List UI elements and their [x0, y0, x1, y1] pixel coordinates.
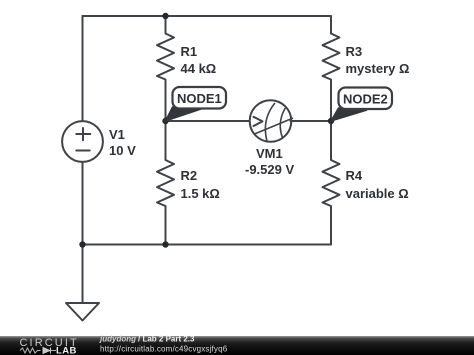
svg-text:variable Ω: variable Ω — [346, 186, 409, 201]
node junction dot node A (NODE1) — [162, 118, 168, 124]
resistor R4 — [323, 121, 340, 245]
ground — [66, 303, 99, 321]
node NODE2 callout — [331, 88, 392, 122]
footer bar — [0, 336, 474, 355]
wire voltmeter to node2 — [291, 120, 332, 122]
svg-text:mystery Ω: mystery Ω — [346, 61, 410, 76]
node junction dot node B (NODE2) — [328, 118, 334, 124]
svg-text:-9.529 V: -9.529 V — [245, 162, 294, 177]
node NODE1 callout — [166, 87, 227, 121]
svg-text:http://circuitlab.com/c49cvgxs: http://circuitlab.com/c49cvgxsjfyq6 — [100, 345, 228, 354]
wire bottom rail — [83, 244, 332, 246]
svg-text:NODE1: NODE1 — [177, 91, 222, 106]
node junction dot R1 top — [162, 13, 168, 19]
svg-text:NODE2: NODE2 — [343, 92, 388, 107]
svg-text:VM1: VM1 — [256, 146, 283, 161]
wire left upper segment — [82, 16, 84, 121]
voltage source V1 — [62, 121, 103, 162]
svg-text:judydong: judydong — [99, 335, 136, 344]
svg-text:R4: R4 — [346, 168, 363, 183]
resistor R1 — [157, 16, 174, 121]
svg-text:LAB: LAB — [56, 346, 77, 355]
footer credits — [99, 335, 228, 354]
svg-text:R3: R3 — [346, 44, 363, 59]
wire ground stem — [82, 245, 84, 304]
logo CircuitLab — [20, 337, 79, 355]
wire left lower segment — [82, 163, 84, 245]
svg-text:44 kΩ: 44 kΩ — [181, 61, 217, 76]
svg-text:V1: V1 — [109, 127, 125, 142]
svg-text:R1: R1 — [181, 44, 198, 59]
wire top rail — [83, 15, 331, 17]
resistor R3 — [323, 16, 340, 121]
svg-text:10 V: 10 V — [109, 143, 136, 158]
voltmeter VM1 — [250, 100, 293, 142]
node junction dot bottom left — [79, 241, 85, 247]
svg-text:1.5 kΩ: 1.5 kΩ — [181, 186, 220, 201]
wire node1 to voltmeter — [166, 120, 250, 122]
node junction dot R2 bottom — [162, 241, 168, 247]
resistor R2 — [157, 121, 174, 245]
svg-text:R2: R2 — [181, 168, 198, 183]
svg-text:/ Lab 2 Part 2.3: / Lab 2 Part 2.3 — [138, 335, 195, 344]
